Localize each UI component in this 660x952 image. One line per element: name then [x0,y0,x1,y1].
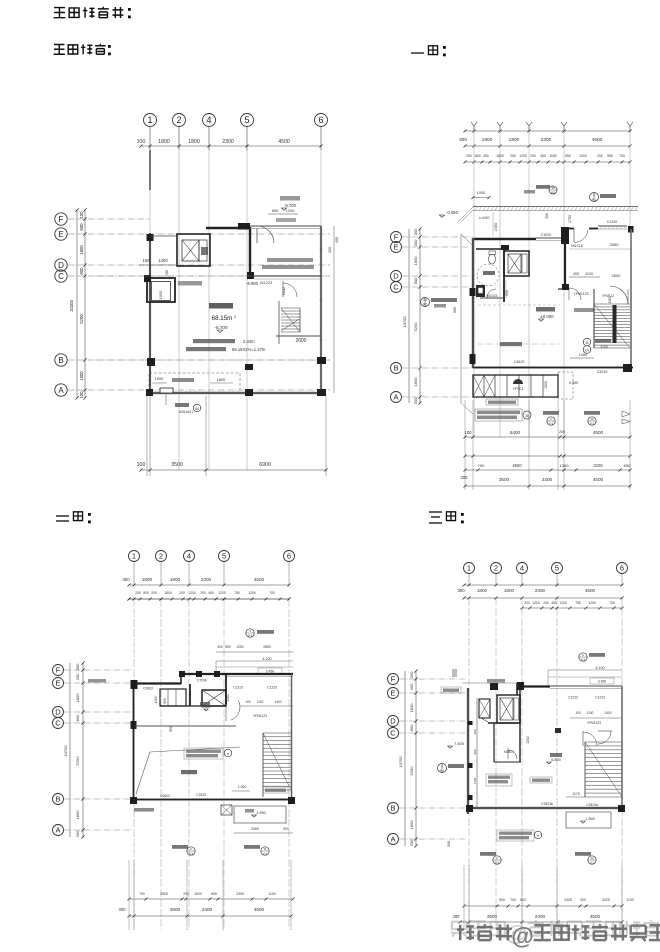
plan2 left balcony strip [460,234,462,403]
svg-text:1200: 1200 [248,591,256,595]
svg-text:300: 300 [409,671,414,678]
plan3 grid bubbles top [129,551,140,562]
svg-text:450: 450 [551,601,557,605]
svg-text:1100: 1100 [257,700,264,704]
svg-text:4500: 4500 [585,588,596,593]
plan4 interior corridor walls mid [493,723,495,762]
svg-text:A-1: A-1 [440,769,445,773]
title 一层: [411,52,424,54]
plan2 triangles right [622,411,630,417]
svg-text:1400: 1400 [604,711,611,715]
plan3 top wall right section [181,673,293,675]
svg-text:750: 750 [575,601,581,605]
svg-text:10700: 10700 [402,316,407,328]
watermark sohu text main [457,923,660,949]
plan3 wall columns [131,721,137,729]
svg-text:4500: 4500 [592,137,603,143]
plan2 callout rain leader 64/A2 [421,298,430,307]
plan3 left grid horizontals [64,669,132,671]
svg-text:700: 700 [609,601,615,605]
plan2 rain callout 10/A-1 [584,411,600,415]
svg-text:200: 200 [183,892,189,896]
svg-text:450: 450 [483,154,489,158]
svg-text:1800: 1800 [413,256,418,266]
svg-text:300: 300 [447,841,451,847]
svg-text:E: E [393,243,398,252]
svg-text:600: 600 [283,827,289,831]
svg-text:200: 200 [466,154,472,158]
svg-text:1450: 1450 [579,353,587,357]
plan4 attic note box [486,774,512,786]
plan1 top-right wall [250,225,321,227]
plan2 bottom wall main [473,366,633,369]
svg-text:900: 900 [499,898,505,902]
plan1 window marks right wall [320,249,323,251]
svg-text:300: 300 [545,213,549,219]
svg-text:5: 5 [555,564,559,573]
svg-text:4500: 4500 [278,139,290,145]
plan3 interior wall grid5 [225,674,227,704]
svg-text:1150: 1150 [549,154,556,158]
svg-text:1: 1 [147,115,152,125]
svg-text:6.800: 6.800 [551,758,561,762]
svg-text:1100: 1100 [585,272,593,276]
plan3 left dimension column [82,663,84,837]
plan2 callout canopy 38/A3 [549,186,557,194]
svg-text:10700: 10700 [398,756,403,768]
svg-text:700: 700 [139,892,145,896]
svg-text:F: F [59,215,64,224]
plan1 annotation 地下车库 -5.700 [280,196,300,201]
svg-text:1830: 1830 [409,703,414,713]
plan1 note lines ventilation [193,339,235,343]
svg-text:A: A [390,835,395,844]
plan4 bottom extension verticals [463,865,465,930]
plan3 flue box [221,805,232,815]
svg-text:F: F [391,675,396,684]
svg-text:2600: 2600 [295,338,306,344]
plan1 grid B dashdot [95,359,330,361]
svg-text:10: 10 [590,417,594,421]
svg-text:5200: 5200 [75,756,80,766]
plan2 stairs [594,303,630,305]
svg-text:1: 1 [467,564,471,573]
svg-text:@: @ [511,923,533,949]
svg-text:±0.000: ±0.000 [540,314,554,319]
svg-text:600: 600 [79,223,84,231]
plan2 second floor overhang dashed [478,304,560,306]
svg-text:3200: 3200 [593,463,603,468]
svg-text:400: 400 [573,272,579,276]
plan1 elevator shaft [177,234,210,266]
svg-text:1800: 1800 [413,377,418,387]
svg-text:W1223: W1223 [260,280,272,285]
plan1 left grid horizontals [68,218,150,220]
svg-text:700: 700 [478,463,485,468]
plan4 top dimension rows [464,584,622,586]
svg-text:YFM1123: YFM1123 [253,714,267,718]
svg-text:1800: 1800 [75,810,80,820]
svg-text:1800: 1800 [504,588,515,593]
plan1 machine pit room [147,278,175,302]
svg-text:300: 300 [461,475,469,480]
svg-text:A: A [58,386,64,395]
svg-text:A-2: A-2 [495,861,500,865]
plan1 vertical dim right [333,226,335,393]
svg-text:5400: 5400 [510,430,521,435]
svg-text:F: F [394,233,399,242]
svg-text:38: 38 [551,186,555,190]
plan4 stairs [585,741,622,743]
plan3 rain callout 11/A-2 [244,845,260,849]
plan3 callout 3/A-1 top [246,629,254,637]
svg-text:100: 100 [575,711,581,715]
svg-text:150: 150 [165,270,169,276]
svg-text:C1223: C1223 [233,686,243,690]
plan3 top dimension rows [129,584,289,586]
plan2 top dimension rows [465,130,630,132]
svg-text:A-2: A-2 [549,422,554,426]
svg-text:1800: 1800 [482,137,493,143]
plan2 stair stringer [613,305,617,343]
svg-text:750: 750 [234,591,240,595]
svg-text:300: 300 [122,577,130,582]
svg-text:A: A [55,826,60,835]
svg-text:5: 5 [222,552,226,561]
plan1 label 机坑检修-6.900 [178,281,202,286]
svg-text:C3230: C3230 [597,370,608,374]
svg-text:YFM1123: YFM1123 [573,292,588,296]
svg-text:A: A [393,393,398,402]
svg-text:200: 200 [530,154,536,158]
svg-text:D: D [55,708,61,717]
svg-text:2425: 2425 [564,898,572,902]
svg-text:200: 200 [559,430,565,434]
svg-text:E: E [55,679,60,688]
svg-text:C709b: C709b [197,679,207,683]
svg-text:2400: 2400 [202,907,213,912]
svg-text:1200: 1200 [188,591,196,595]
svg-text:1800: 1800 [79,371,84,381]
svg-text:A-1: A-1 [248,634,253,638]
svg-text:3.450: 3.450 [598,680,607,684]
svg-text:300: 300 [75,673,80,680]
plan1 columns row B [147,358,155,366]
svg-text:5200: 5200 [409,766,414,776]
svg-text:1000: 1000 [477,191,485,195]
svg-text:800: 800 [75,714,80,721]
svg-text:2300: 2300 [222,139,234,145]
plan2 top wall jog column [561,227,569,244]
plan1 right mid wall with window [254,275,321,277]
plan2 mid wall grid5 [564,240,566,289]
svg-text:4500: 4500 [512,463,522,468]
plan3 rain callout 2/A-2 [172,845,188,849]
svg-text:4500: 4500 [254,907,265,912]
svg-text:5200: 5200 [413,322,418,332]
svg-text:5: 5 [244,115,249,125]
title 三层: [429,512,442,523]
plan2 top wall window C1020 [536,237,561,239]
plan3 stairs [263,732,291,734]
svg-text:300: 300 [409,683,414,690]
svg-text:6: 6 [318,115,323,125]
svg-text:1800: 1800 [164,591,172,595]
plan4 left exterior wall [467,688,469,814]
svg-text:800: 800 [225,645,231,649]
title 地下一层: [54,45,65,55]
svg-text:A-1: A-1 [590,422,595,426]
plan4 inner wall line left [476,698,478,808]
svg-text:10700: 10700 [63,745,68,757]
svg-text:1250: 1250 [236,645,243,649]
svg-text:C1220: C1220 [607,220,618,224]
svg-text:100: 100 [137,139,146,145]
svg-text:1300: 1300 [526,736,530,743]
plan2 garage label YFTC1 [513,379,523,384]
svg-text:950: 950 [505,290,509,296]
svg-text:C0603: C0603 [143,687,153,691]
plan3 bottom wall [132,798,293,800]
svg-text:1.950: 1.950 [585,817,595,821]
plan2 left exterior wall [472,238,475,368]
svg-text:C1020: C1020 [541,233,552,237]
svg-text:2: 2 [494,564,498,573]
svg-text:2500: 2500 [160,892,168,896]
svg-text:2.34m: 2.34m [243,339,255,344]
svg-text:700: 700 [510,898,516,902]
plan1 meter note [165,393,167,405]
svg-text:850: 850 [272,209,278,213]
plan1 dim 150 1400 [139,264,177,266]
plan1 stair bottom wall [276,335,321,337]
svg-text:1300: 1300 [608,296,612,303]
svg-text:450: 450 [208,591,214,595]
svg-text:100: 100 [137,462,146,468]
plan3 terrace dims [234,832,293,834]
plan3 roof edge steps [216,660,293,662]
svg-text:900: 900 [453,307,457,313]
svg-text:36: 36 [525,414,529,418]
plan1 top dimension row [141,145,321,147]
svg-text:800: 800 [79,267,84,275]
plan2 left grid horizontals [402,236,473,238]
svg-text:4.100: 4.100 [263,657,272,661]
svg-text:C1523: C1523 [196,793,206,797]
svg-text:C1223: C1223 [267,686,277,690]
svg-text:300: 300 [413,239,418,246]
svg-text:-5.700: -5.700 [284,203,297,208]
plan1 bottom wall [147,392,326,394]
plan1 bottom columns [245,389,253,396]
svg-text:1100: 1100 [626,898,633,902]
svg-text:3500: 3500 [487,914,498,919]
svg-text:950: 950 [607,154,613,158]
svg-text:12: 12 [590,856,594,860]
svg-text:1100: 1100 [268,892,275,896]
svg-text:1800: 1800 [217,377,226,382]
svg-text:1: 1 [132,552,136,561]
svg-text:300: 300 [119,907,127,912]
svg-text:B: B [390,804,395,813]
svg-text:30: 30 [585,341,589,345]
plan2 bottom extension verticals [464,400,466,490]
plan4 right exterior wall [621,686,623,808]
svg-text:3150: 3150 [600,345,608,349]
svg-text:D: D [393,272,399,281]
plan1 stair entry door [282,281,284,297]
plan2 hall label [536,307,555,312]
svg-text:68.15m: 68.15m [212,315,233,322]
svg-text:-0.050: -0.050 [446,210,459,215]
plan4 columns top [490,683,498,690]
svg-text:2300: 2300 [236,892,244,896]
plan3 small dims over roof [216,651,293,653]
svg-text:68.15X2%=1.37m: 68.15X2%=1.37m [232,347,266,352]
plan4 rain callout 12/A-2 [575,852,591,856]
svg-text:1200: 1200 [588,601,596,605]
svg-text:C: C [58,272,64,281]
plan1 column C1 [144,275,151,282]
svg-text:1200: 1200 [519,154,527,158]
svg-text:A-2: A-2 [189,852,194,856]
svg-text:1800: 1800 [477,588,488,593]
svg-text:800: 800 [520,898,526,902]
plan2 notes two lines [475,409,522,421]
plan3 fire window note [263,787,288,793]
svg-text:800: 800 [211,892,217,896]
svg-text:C2523a: C2523a [586,803,598,807]
svg-text:2100: 2100 [473,777,477,784]
svg-text:800: 800 [409,724,414,731]
plan2 right dashed rect [558,372,573,399]
svg-text:04: 04 [195,407,199,411]
plan3 elevator [202,690,226,706]
plan4 left grid horizontals [399,678,466,680]
svg-text:1500: 1500 [194,892,202,896]
svg-text:100: 100 [79,391,84,399]
svg-text:300: 300 [413,397,418,404]
svg-text:850: 850 [169,726,173,732]
svg-text:6900: 6900 [259,462,271,468]
plan1 column at grid4 top [238,223,250,230]
svg-text:1200: 1200 [559,601,567,605]
svg-text:1750: 1750 [568,215,572,223]
svg-text:1200: 1200 [218,591,226,595]
svg-text:300: 300 [217,645,223,649]
svg-text:450: 450 [540,154,546,158]
plan4 top wall [517,685,550,687]
svg-text:C: C [390,729,396,738]
plan3 duct shaft box [160,689,186,706]
plan1 bottom dim row [141,469,326,471]
plan4 dims 100 1100 1400 [570,717,622,719]
svg-text:2600: 2600 [612,273,622,278]
svg-text:1800: 1800 [409,820,414,830]
plan2 rain callout 2/A-2 [543,411,559,415]
svg-text:4500: 4500 [593,477,604,482]
svg-text:100: 100 [245,700,251,704]
svg-text:1175: 1175 [572,792,579,796]
svg-text:C1223: C1223 [595,696,605,700]
svg-text:6: 6 [620,564,624,573]
plan4 canopy line left [462,682,517,684]
svg-text:200: 200 [597,154,603,158]
plan3 railing note box [184,748,223,759]
plan3 right exterior wall [291,674,293,801]
svg-text:1000: 1000 [155,376,164,381]
svg-text:C: C [55,719,61,728]
plan1 dims 850 1200 [268,213,298,215]
svg-text:700: 700 [619,154,625,158]
svg-text:4: 4 [441,764,443,768]
svg-text:1.000: 1.000 [238,785,247,789]
plan3 left grid bubbles [53,665,64,676]
plan1 dashed storage rect [149,373,240,392]
plan3 top wall left section [132,682,181,684]
svg-text:F: F [56,666,61,675]
svg-text:300: 300 [75,663,80,670]
plan2 right corner column [628,226,634,233]
svg-text:3500: 3500 [170,907,181,912]
plan1 room label 车库(地下室) [209,303,233,309]
svg-text:1200: 1200 [532,601,540,605]
svg-text:2450: 2450 [494,223,498,231]
plan3 left exterior wall [132,683,134,801]
plan2 dims 400 1400 2600 [569,276,600,278]
svg-text:200: 200 [543,601,549,605]
svg-text:1350: 1350 [560,463,570,468]
plan4 rain callout 2/A-2 [480,852,496,856]
plan4 terrace below [566,812,611,828]
svg-text:i=1/50: i=1/50 [479,216,489,220]
svg-text:M1218: M1218 [571,244,582,248]
svg-text:200: 200 [200,591,206,595]
svg-text:300: 300 [409,839,414,846]
svg-text:0.500: 0.500 [569,381,578,385]
svg-text:1400: 1400 [274,700,281,704]
svg-text:200: 200 [524,601,530,605]
plan2 stair callouts 30/C9B [583,338,591,346]
plan2 bathroom shower fixture [476,285,485,297]
plan2 left grid bubbles [391,232,402,243]
plan1 wall corner to elevator [150,235,177,237]
svg-text:300: 300 [457,588,465,593]
title 二层: [56,516,69,521]
plan3 void label [181,770,197,774]
svg-text:2: 2 [593,193,595,197]
svg-text:6: 6 [287,552,291,561]
svg-text:-5.700: -5.700 [214,325,227,330]
svg-text:4: 4 [187,552,191,561]
svg-text:E: E [390,689,395,698]
svg-text:1800: 1800 [509,137,520,143]
svg-text:1200: 1200 [226,694,230,701]
svg-text:300: 300 [453,914,461,919]
svg-text:2: 2 [159,552,163,561]
plan4 left dimension column [415,671,417,846]
plan3 void diagonal [136,752,150,794]
plan4 fire window note [530,777,552,783]
plan4 callout water 4/A-1 [438,764,447,773]
svg-text:1200: 1200 [286,209,294,213]
svg-text:4: 4 [520,564,524,573]
plan4 roof edge [548,669,622,671]
svg-text:200: 200 [151,591,157,595]
plan4 left wall columns [468,721,473,725]
plan2 top wall left section [473,238,536,241]
plan2 right exterior wall [630,229,632,368]
